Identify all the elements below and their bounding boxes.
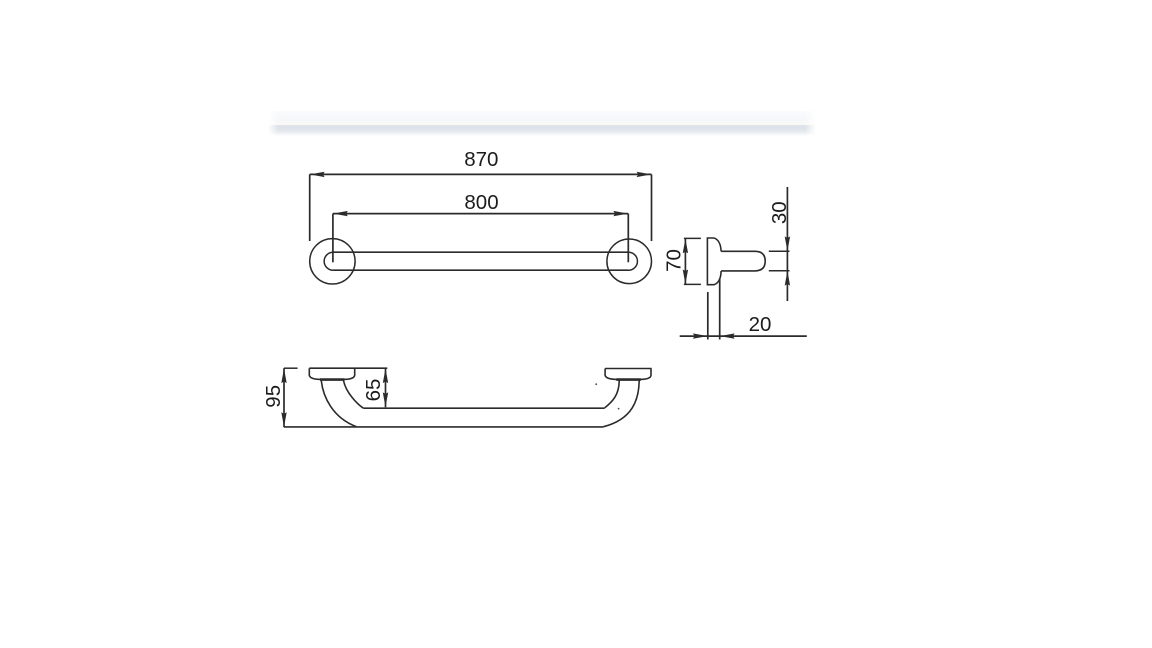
tick 30 top [769, 250, 790, 252]
ext line 800 right [627, 214, 629, 263]
arrow 20 left (points right) [693, 333, 708, 338]
arrow 30 upper (points down to tube top) [785, 236, 790, 251]
arrow 95 bottom [281, 412, 286, 427]
svg-text:95: 95 [262, 385, 285, 408]
svg-text:870: 870 [464, 148, 498, 171]
arrow 870 right [637, 172, 652, 177]
arrow 95 top [281, 368, 286, 383]
arrow 800 right [613, 211, 628, 216]
bracket tube side [721, 251, 765, 271]
right flange outer circle [607, 239, 652, 284]
tube top line (front view) [363, 407, 604, 409]
left inner bend [343, 380, 363, 408]
svg-text:65: 65 [362, 379, 385, 402]
dim line 870 [310, 173, 652, 175]
arrow 30 lower (points up to tube bottom) [785, 271, 790, 286]
left flange outer circle [310, 239, 355, 284]
arrow 70 top [683, 239, 688, 254]
dim line 30 [786, 187, 788, 301]
svg-text:20: 20 [749, 313, 772, 336]
right outer bend [604, 380, 640, 427]
dim line 800 [333, 213, 628, 215]
ext line 20 right [719, 279, 721, 340]
right plate thick bottom edge [616, 378, 641, 381]
tick 70 bottom [684, 283, 701, 285]
arrow 20 right (points left) [720, 333, 735, 338]
dim line 65 [385, 368, 387, 407]
ext line 870 right [651, 174, 653, 241]
tick 95 top [284, 367, 298, 369]
arrow 870 left [310, 172, 325, 177]
dim line 95 [283, 368, 285, 427]
top separator band [267, 111, 817, 136]
right plate top edge [605, 368, 652, 370]
tube bottom line + 95 extension (front view) [284, 426, 604, 428]
arrow 65 bottom [383, 392, 388, 407]
svg-text:800: 800 [464, 191, 498, 214]
dim line 20 [680, 335, 807, 337]
right inner bend [605, 380, 619, 408]
speck on tube top [618, 408, 620, 410]
svg-text:70: 70 [662, 249, 685, 272]
bar tube bottom line [334, 269, 628, 271]
dim line 70 [684, 238, 686, 284]
tick 70 top [684, 237, 701, 239]
bar tube top line [334, 251, 628, 253]
arrow 70 bottom [683, 270, 688, 285]
ext line 870 left [309, 174, 311, 241]
arrow 65 top [383, 368, 388, 383]
arrow 800 left [333, 211, 348, 216]
left flange socket arc [324, 252, 334, 270]
svg-text:30: 30 [768, 201, 791, 224]
left outer bend [321, 380, 356, 427]
speck near right bend [595, 383, 597, 385]
left plate outline [309, 368, 354, 379]
tick 30 bottom [769, 270, 790, 272]
ext line 20 left [707, 292, 709, 340]
ext line 800 left [332, 214, 334, 263]
bracket plate profile [707, 238, 721, 285]
left plate top edge + 65 extension [309, 367, 387, 369]
right plate outline [605, 369, 651, 380]
right flange socket arc [628, 252, 638, 270]
left plate thick bottom edge [320, 378, 345, 381]
